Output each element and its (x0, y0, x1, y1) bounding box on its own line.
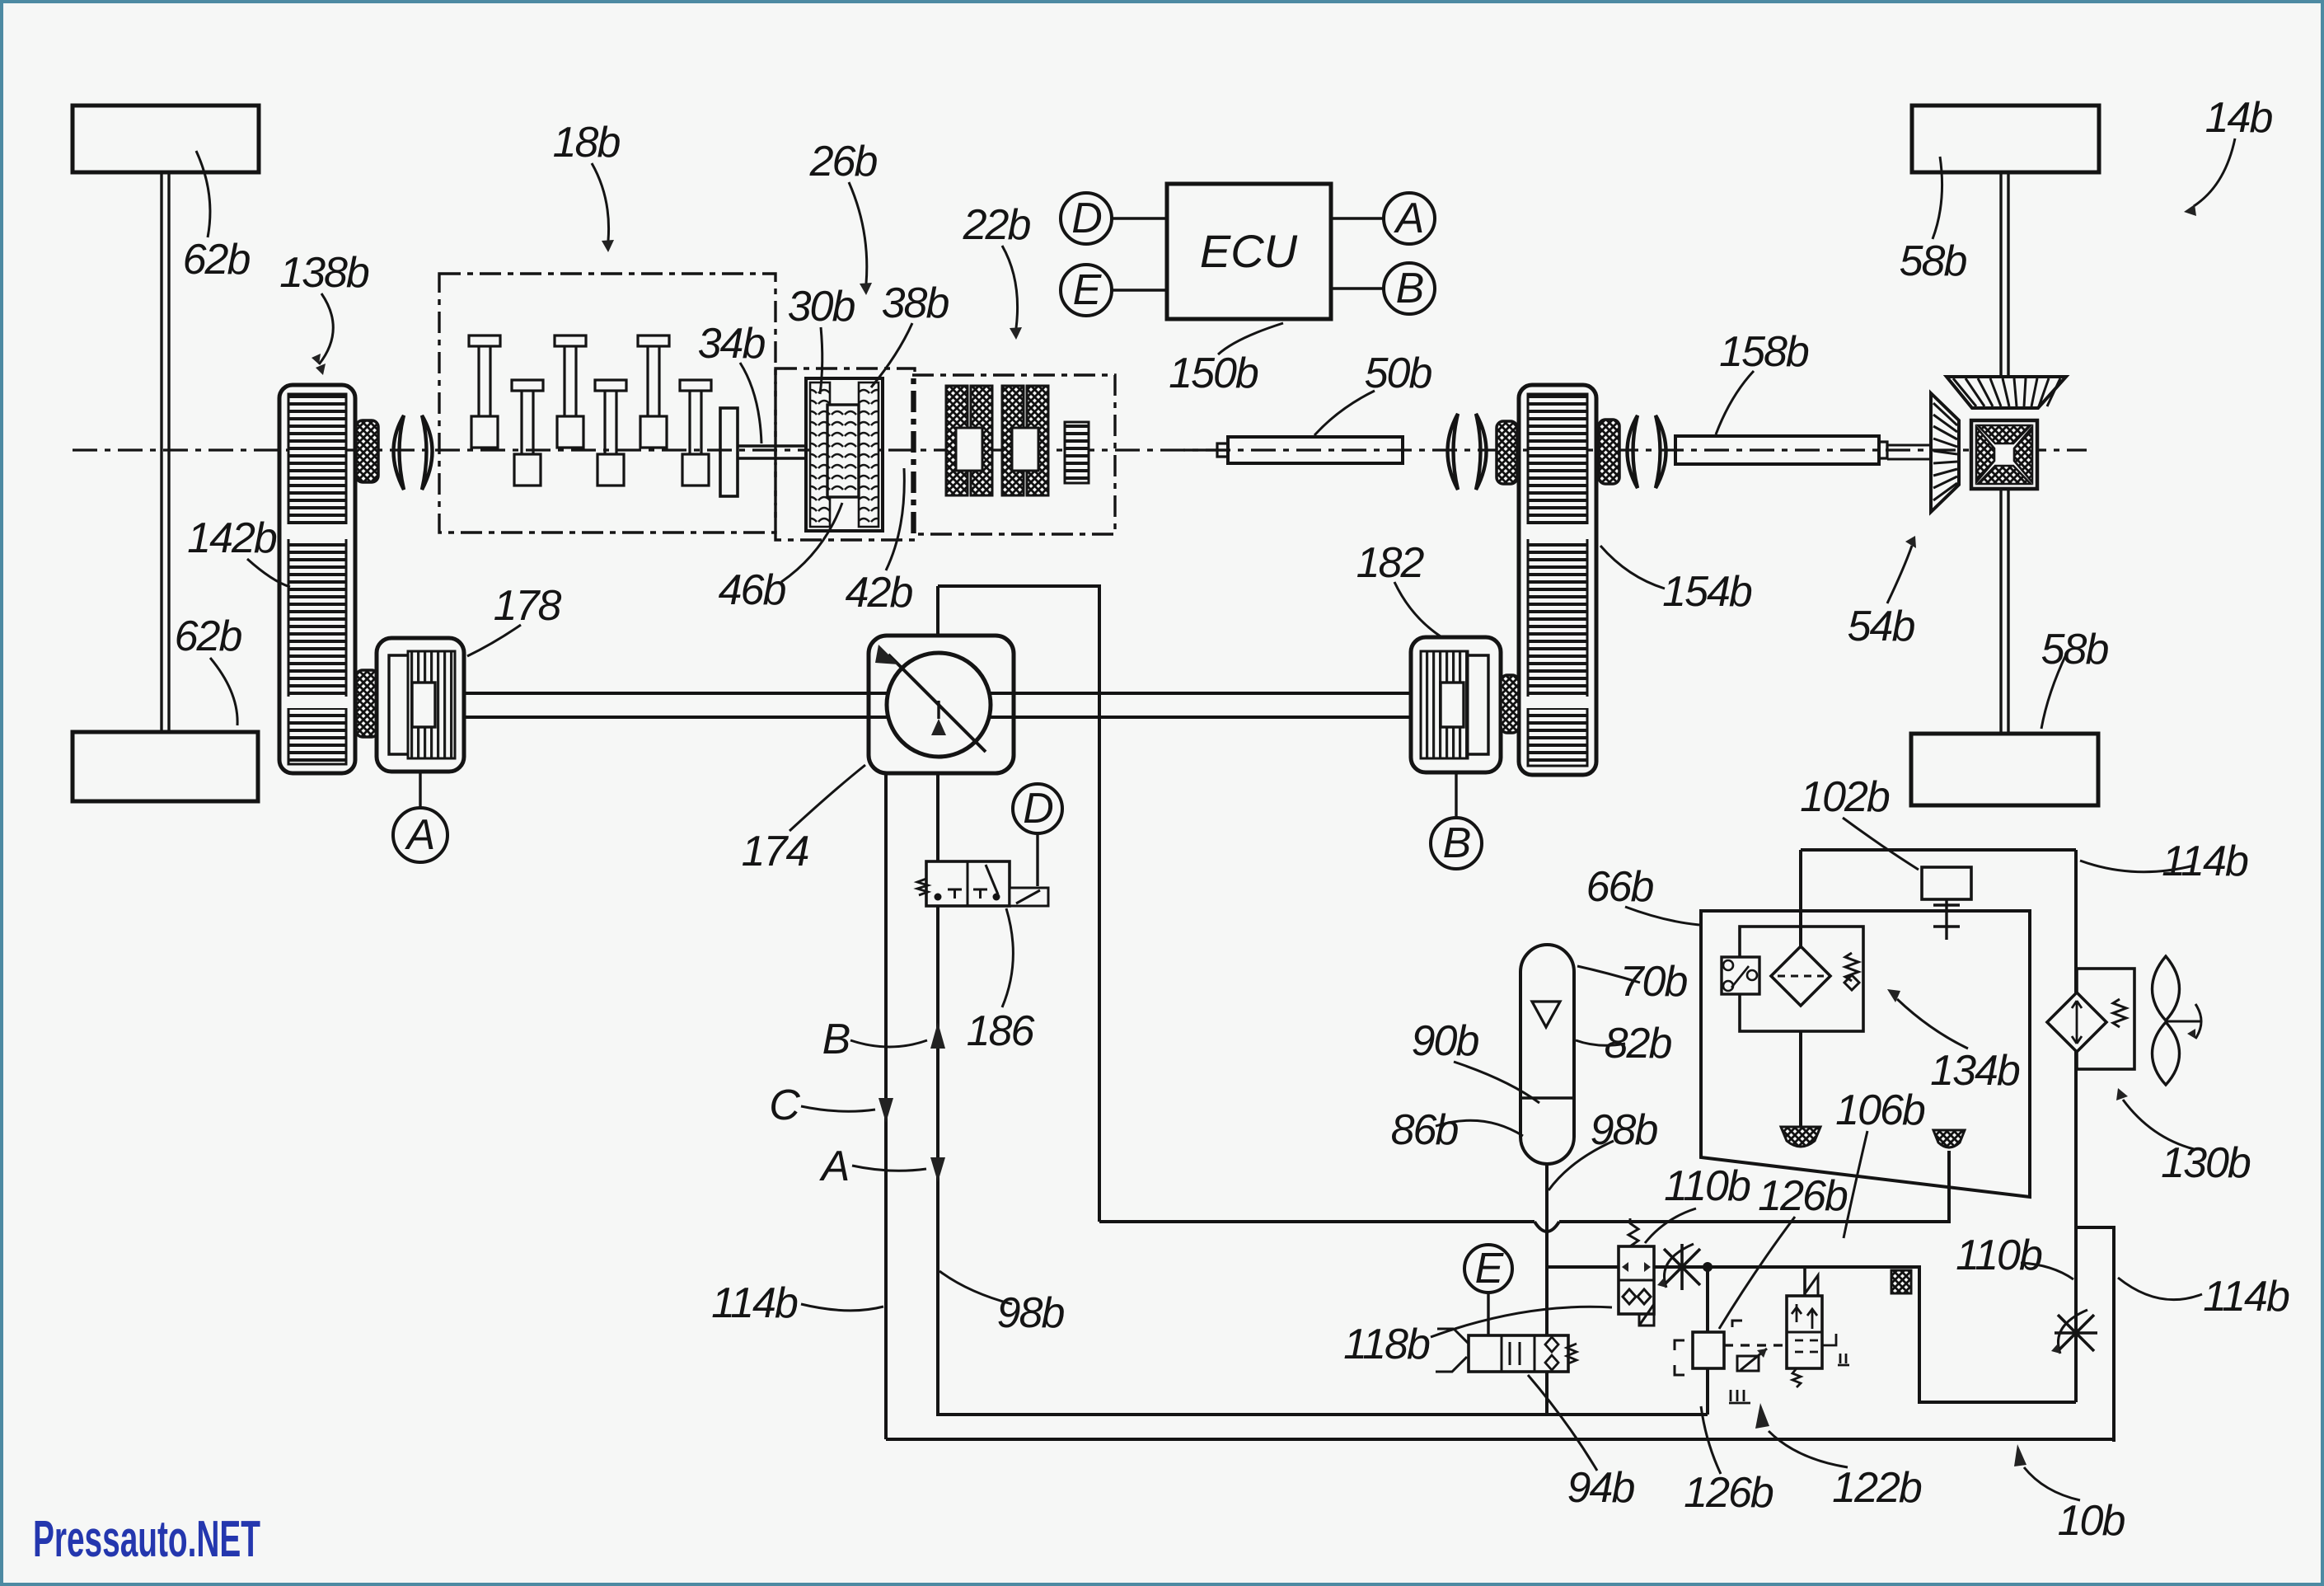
svg-text:D: D (1071, 195, 1101, 242)
leader 22b + arrow (1002, 246, 1018, 328)
piston up 2 (555, 335, 586, 448)
crossover hop at accumulator line (1534, 1222, 1559, 1232)
leader 118b (1431, 1307, 1612, 1337)
svg-text:182: 182 (1356, 539, 1425, 587)
wheel top-right (1912, 106, 2099, 172)
leader 82b (1576, 1040, 1625, 1045)
leader 150b (1218, 323, 1283, 354)
return riser (2074, 850, 2078, 1402)
svg-text:66b: 66b (1586, 863, 1654, 911)
leader 126b first (1719, 1217, 1795, 1329)
svg-text:70b: 70b (1620, 958, 1688, 1006)
relief valve 102b (1922, 867, 1971, 899)
leader 46b (781, 503, 842, 582)
coupling hub left clutch (crosshatch) (356, 670, 378, 737)
flexible coupling ( ) on main axis (394, 415, 405, 490)
leader 126b second (1701, 1406, 1721, 1474)
B circle (ECU) (1384, 263, 1435, 314)
D circle (pump valve) (1013, 784, 1062, 833)
svg-text:E: E (1073, 266, 1103, 314)
E circle (ECU) (1061, 265, 1112, 316)
svg-text:174: 174 (742, 828, 808, 875)
leader 110b first (1645, 1208, 1696, 1243)
svg-text:B: B (822, 1016, 850, 1063)
suction line to tank (1799, 1031, 1802, 1127)
svg-text:50b: 50b (1365, 350, 1432, 397)
leader B + arrow (850, 1040, 927, 1047)
svg-text:114b: 114b (2162, 838, 2248, 885)
motor symbol (1722, 957, 1759, 994)
svg-text:B: B (1396, 265, 1423, 312)
svg-text:Pressauto.NET: Pressauto.NET (33, 1511, 260, 1568)
leader 178 (467, 625, 521, 656)
svg-text:122b: 122b (1832, 1464, 1922, 1512)
svg-text:10b: 10b (2058, 1497, 2125, 1545)
svg-text:110b: 110b (1664, 1162, 1750, 1210)
engine box 18b (dash-dot) (439, 274, 775, 533)
countershaft double line (464, 693, 1411, 717)
gearbox 22b box (dash-dot) (912, 375, 1115, 534)
piston down 2 (595, 380, 626, 486)
leader 182 (1394, 582, 1441, 636)
supply manifold line (1099, 1151, 1949, 1222)
piston up 3 (638, 335, 669, 448)
coupling hub left (crosshatch) (1497, 421, 1517, 484)
heat exchanger block (1891, 1270, 1911, 1293)
wheel bottom-right (1911, 734, 2098, 805)
coupling hub right (crosshatch) (1599, 420, 1619, 484)
leader 66b (1625, 907, 1699, 925)
directional valve 118b (1469, 1335, 1568, 1372)
svg-text:38b: 38b (882, 279, 949, 327)
charge circuit top line 114b (1801, 848, 2076, 852)
svg-text:30b: 30b (788, 283, 855, 331)
wheel bottom-left (73, 732, 258, 801)
crankshaft piston symbols (469, 335, 711, 486)
right axle lower (double line) (2001, 485, 2008, 734)
leader 134b + arrow (1897, 999, 1968, 1049)
svg-text:14b: 14b (2205, 94, 2273, 142)
svg-text:114b: 114b (2203, 1273, 2289, 1321)
reservoir box (slanted bottom) (1701, 911, 2030, 1197)
leader 86b (1436, 1120, 1523, 1136)
leader 94b (1528, 1375, 1597, 1471)
leader 98b acc (1549, 1141, 1614, 1190)
gear 138b / 142b stack (279, 385, 355, 773)
valve 186 (926, 861, 1010, 906)
leader 102b (1843, 818, 1919, 870)
leader 158b (1716, 371, 1754, 434)
coupling hub (crosshatch) on main axis (356, 420, 378, 482)
leader 174 (790, 765, 865, 831)
leader 26b + arrow (849, 182, 867, 284)
coupling hub right clutch (crosshatch) (1501, 675, 1519, 733)
wheel top-left (73, 106, 259, 172)
svg-text:B: B (1443, 819, 1470, 867)
leader 90b (1454, 1062, 1539, 1103)
ECU input lines (1112, 218, 1384, 290)
leader 142b (247, 559, 290, 587)
svg-text:126b: 126b (1684, 1469, 1773, 1517)
clutch housing box (dash-dot) (775, 368, 915, 540)
svg-text:94b: 94b (1567, 1464, 1635, 1512)
leader 138b + arrow (319, 293, 333, 364)
main driveline centerline (73, 448, 2087, 451)
leader C + arrow (801, 1106, 875, 1111)
leader 50b (1314, 391, 1375, 435)
svg-text:186: 186 (967, 1007, 1035, 1055)
leader 18b + arrow (592, 163, 609, 241)
svg-text:A: A (1394, 195, 1423, 242)
leader 110b second (2021, 1263, 2073, 1279)
leader 186 (1002, 908, 1013, 1007)
svg-text:178: 178 (494, 582, 562, 630)
svg-text:54b: 54b (1848, 603, 1915, 650)
leader 30b (820, 327, 822, 394)
svg-text:42b: 42b (846, 569, 913, 617)
filter diamond (1771, 946, 1830, 1006)
svg-text:90b: 90b (1412, 1017, 1479, 1065)
leader 54b + arrow (1887, 546, 1912, 603)
tank 2 (1933, 1130, 1965, 1147)
flywheel plate (720, 408, 738, 496)
svg-text:E: E (1475, 1245, 1505, 1293)
svg-text:150b: 150b (1169, 350, 1258, 397)
svg-text:138b: 138b (279, 249, 369, 297)
gear 154b stack (1519, 385, 1596, 775)
svg-text:114b: 114b (711, 1279, 798, 1327)
right axle upper (double line) (2001, 172, 2008, 377)
flexible coupling ( ) right of gear 154b (1628, 415, 1638, 488)
leader 122b + arrow (1769, 1431, 1848, 1467)
left axle (double line) (162, 172, 169, 732)
tank 1 (1781, 1127, 1820, 1147)
D circle (ECU) (1061, 193, 1112, 244)
flexible coupling ( ) left of gear 154b (1448, 414, 1459, 490)
ECU box (1167, 184, 1331, 319)
svg-text:58b: 58b (2041, 626, 2109, 673)
piston down 1 (512, 380, 543, 486)
leader 114b right-top (2080, 861, 2194, 872)
leader 38b (871, 323, 912, 387)
svg-text:82b: 82b (1605, 1020, 1672, 1067)
leader A + arrow (852, 1166, 926, 1171)
leader 154b (1600, 546, 1665, 589)
piston up 1 (469, 335, 500, 448)
restrictor star 1 (1657, 1244, 1707, 1290)
svg-text:26b: 26b (809, 138, 878, 185)
restrictor star 2 (2055, 1310, 2097, 1356)
svg-text:126b: 126b (1758, 1172, 1848, 1220)
differential ring bevel gear (top) (1947, 377, 2066, 408)
pump/motor 174 (887, 653, 991, 757)
leader 58b top (1933, 157, 1942, 239)
svg-text:34b: 34b (698, 320, 766, 368)
differential side bevel gear (left) (1931, 393, 1959, 512)
differential spider box (1971, 420, 2037, 489)
svg-text:158b: 158b (1719, 328, 1809, 376)
bypass spring + check (1845, 953, 1858, 981)
A circle (ECU) (1384, 193, 1435, 244)
leader 62b top (196, 151, 210, 237)
filter unit 66b box (1740, 927, 1863, 1031)
svg-text:98b: 98b (1591, 1106, 1658, 1154)
leader 70b (1577, 966, 1640, 983)
leader 58b bottom (2041, 653, 2067, 729)
output shaft 50b (1183, 448, 1228, 451)
accumulator line 98b (1545, 1164, 1549, 1415)
fan blades (2153, 956, 2180, 1021)
leader 42b (886, 468, 904, 570)
leader 10b + arrow (2024, 1467, 2080, 1500)
leader 130b + arrow (2123, 1100, 2194, 1149)
svg-text:110b: 110b (1956, 1232, 2042, 1279)
gear pair 2 (1002, 386, 1024, 495)
B circle (1455, 772, 1457, 818)
svg-text:102b: 102b (1800, 773, 1890, 821)
propeller shaft 158b (1675, 436, 1879, 464)
svg-text:C: C (769, 1082, 800, 1129)
leader 114b left (801, 1304, 883, 1311)
svg-text:62b: 62b (183, 236, 251, 284)
clutch 178 (377, 638, 464, 772)
svg-text:118b: 118b (1343, 1321, 1430, 1368)
svg-text:A: A (819, 1143, 849, 1190)
clutch 30b damper (806, 378, 883, 531)
svg-text:58b: 58b (1900, 237, 1967, 285)
accumulator 70b (1520, 945, 1574, 1164)
cooler 130b (2077, 969, 2134, 1069)
pilot line (1547, 1267, 2076, 1402)
svg-text:18b: 18b (553, 119, 621, 167)
content groups inserted below (73, 106, 2099, 805)
svg-text:154b: 154b (1662, 568, 1752, 616)
piston down 3 (680, 380, 711, 486)
svg-text:142b: 142b (187, 514, 277, 562)
svg-text:86b: 86b (1391, 1106, 1459, 1154)
leader 14b + arrow (2194, 138, 2235, 206)
svg-text:22b: 22b (963, 201, 1031, 249)
pressure valve 122b (1803, 1267, 1806, 1296)
svg-text:ECU: ECU (1200, 225, 1298, 277)
svg-text:130b: 130b (2161, 1139, 2251, 1187)
small gear (1065, 422, 1089, 483)
svg-text:106b: 106b (1835, 1086, 1925, 1134)
check valve 110b (1619, 1246, 1654, 1314)
leader 114b second (2118, 1278, 2202, 1300)
svg-text:46b: 46b (719, 566, 786, 614)
gear pair 1 (946, 386, 968, 495)
svg-text:98b: 98b (997, 1289, 1065, 1337)
leader 98b mid (939, 1271, 1012, 1304)
solenoid cartridge 126b (1706, 1267, 1709, 1415)
A circle (419, 772, 421, 808)
svg-text:62b: 62b (175, 612, 242, 660)
svg-text:134b: 134b (1930, 1047, 2020, 1095)
leader 34b (740, 363, 761, 443)
leader 106b (1844, 1131, 1867, 1238)
leader 62b bottom (210, 658, 237, 725)
hydrostatic unit 174 feed lines (938, 586, 1708, 1415)
svg-text:A: A (405, 811, 434, 859)
svg-text:D: D (1023, 785, 1052, 833)
clutch 182 (1411, 637, 1501, 772)
E circle (hydraulic) (1464, 1245, 1512, 1293)
